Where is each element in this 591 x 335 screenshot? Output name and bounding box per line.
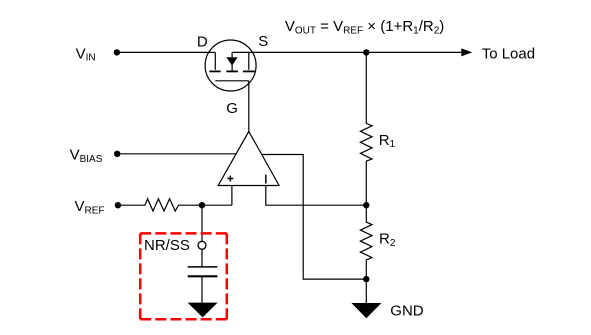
svg-text:G: G: [226, 100, 238, 117]
svg-text:D: D: [197, 34, 208, 51]
svg-text:To Load: To Load: [482, 46, 535, 63]
svg-text:R1: R1: [379, 132, 396, 150]
svg-text:VREF: VREF: [75, 198, 105, 216]
svg-text:R2: R2: [379, 231, 396, 249]
svg-text:VBIAS: VBIAS: [70, 147, 103, 165]
svg-text:S: S: [258, 33, 268, 50]
svg-text:VIN: VIN: [76, 45, 96, 63]
svg-text:VOUT = VREF × (1+R1/R2): VOUT = VREF × (1+R1/R2): [285, 18, 444, 36]
svg-text:GND: GND: [390, 302, 424, 319]
svg-text:NR/SS: NR/SS: [144, 237, 190, 254]
